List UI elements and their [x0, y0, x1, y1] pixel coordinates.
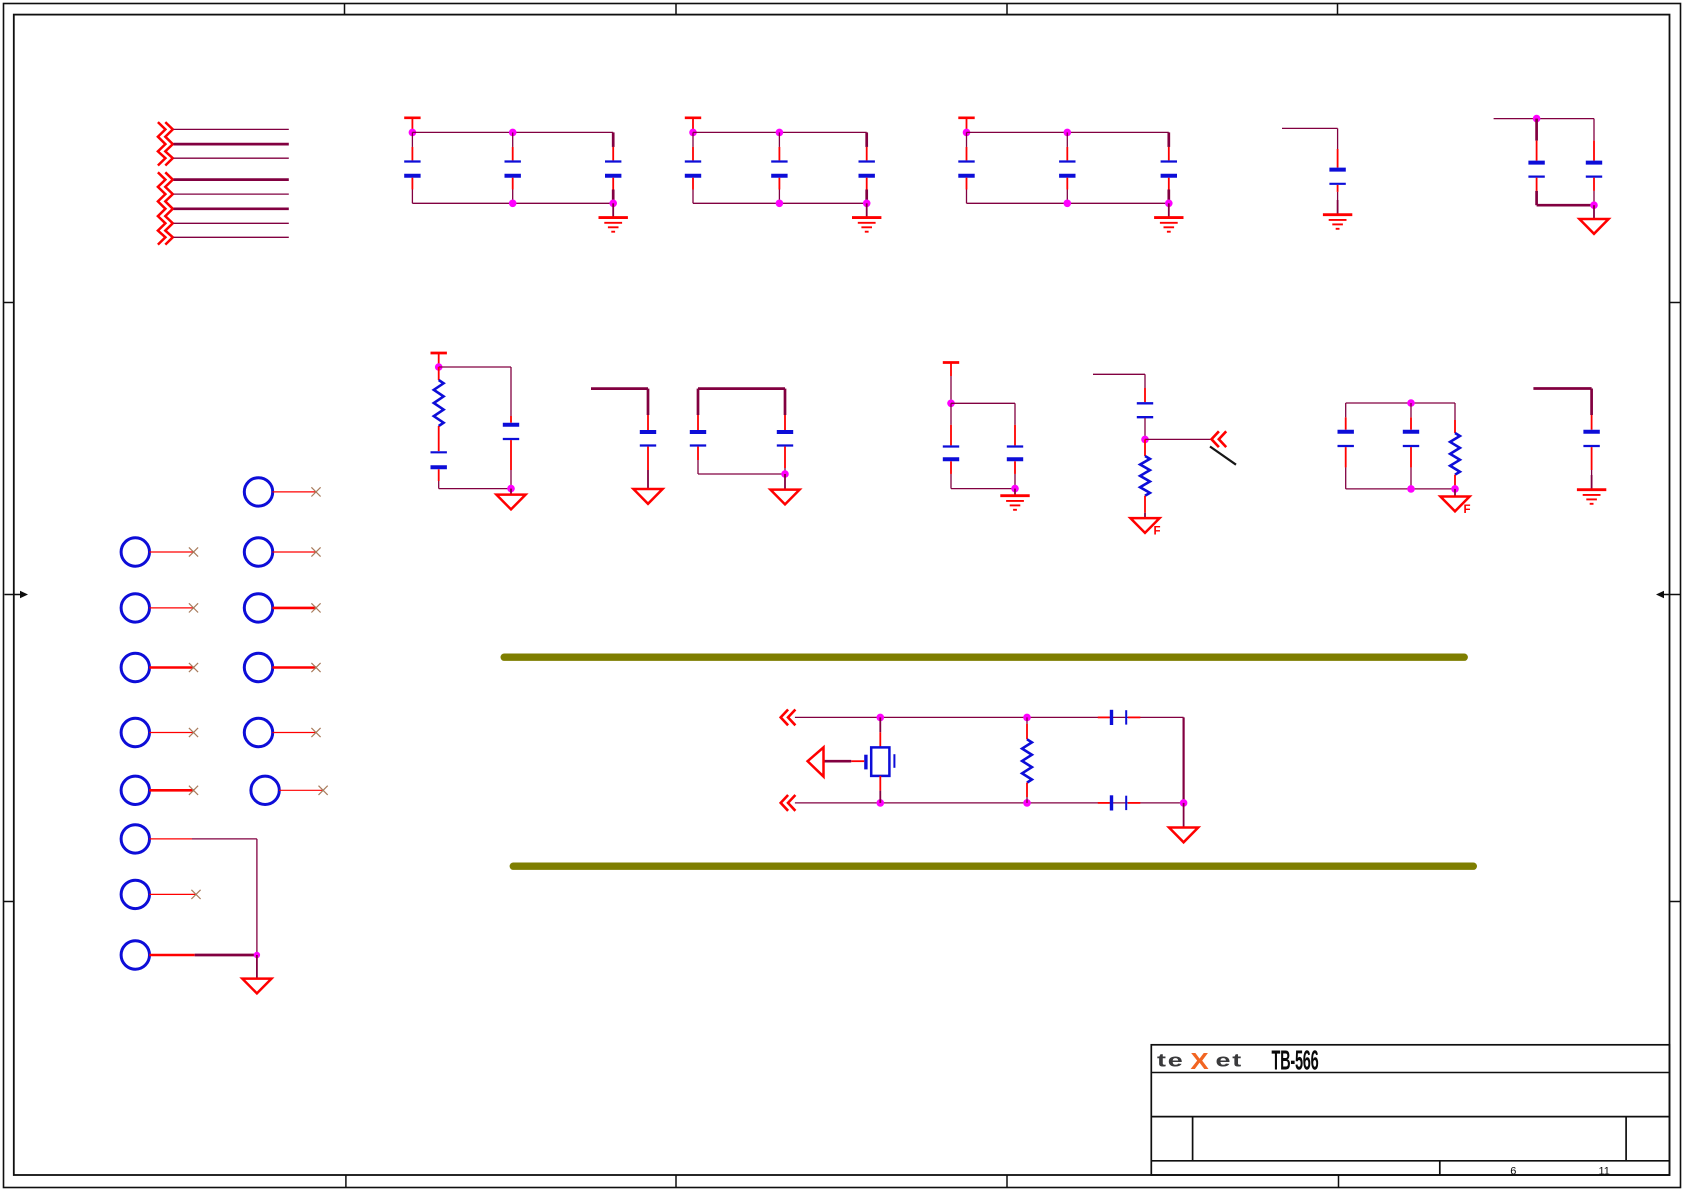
- node XT right bottom: [1180, 799, 1188, 807]
- svg-text:TB-566: TB-566: [1272, 1045, 1319, 1076]
- no-connect x P-L5: [189, 786, 198, 795]
- wire XT top: [795, 716, 1184, 718]
- ground cap H: [1323, 200, 1352, 229]
- node D top: [947, 400, 955, 408]
- wire XT right vertical: [1182, 717, 1184, 803]
- wire C top: [698, 387, 785, 390]
- ground crystal case (left triangle): [808, 747, 824, 776]
- node pins junction: [254, 952, 260, 958]
- no-connect x P-L2: [189, 603, 198, 612]
- wire cap H top: [1282, 127, 1338, 129]
- wire W7: [174, 222, 289, 224]
- pin P-R3: [244, 594, 316, 622]
- wire W1: [174, 128, 289, 130]
- capacitor C-C2: [777, 389, 793, 474]
- ground bank 2: [852, 203, 881, 231]
- capacitor C3a: [958, 132, 974, 203]
- pin P-L8: [121, 941, 257, 969]
- svg-text:et: et: [1216, 1049, 1243, 1070]
- node bank 1 bottom-middle: [509, 200, 517, 208]
- ground pair I: [1579, 205, 1608, 234]
- wire A bottom: [439, 488, 511, 490]
- capacitor C2b: [771, 132, 787, 203]
- capacitor C-A2: [503, 367, 519, 489]
- ground E: [1130, 513, 1159, 533]
- pin P-L7: [121, 880, 196, 908]
- wire E top: [1093, 374, 1145, 388]
- power pin bank 2: [685, 118, 701, 133]
- border zone tick left 2: [4, 901, 14, 903]
- wire D stub: [950, 376, 952, 403]
- off-page chevron XT top: [781, 710, 796, 726]
- border zone tick top 4: [1337, 4, 1339, 15]
- capacitor C-D1: [943, 403, 959, 488]
- border zone tick right 2: [1670, 901, 1682, 903]
- wire B: [591, 389, 648, 415]
- no-connect x P-R2: [311, 547, 320, 556]
- power pin bank 1: [404, 118, 420, 133]
- capacitor C-B: [640, 415, 656, 470]
- off-page chevron E: [1212, 431, 1227, 447]
- ground A: [496, 489, 525, 510]
- no-connect x P-R5: [311, 728, 320, 737]
- node bank 3 bottom-right: [1165, 200, 1173, 208]
- bus bar top: [504, 654, 1464, 661]
- wire W6: [174, 207, 289, 210]
- wire P-L6 vertical: [256, 839, 258, 955]
- border zone tick top 1: [344, 4, 346, 15]
- node A top: [435, 363, 443, 371]
- wire XT bottom: [795, 802, 1184, 804]
- pin P-R6: [251, 776, 323, 804]
- wire bank 2 top: [693, 131, 867, 133]
- resistor R-F: [1450, 403, 1460, 489]
- node bank 1 top-left: [409, 129, 417, 137]
- node D bottom: [1011, 485, 1019, 493]
- pin P-R1: [244, 478, 316, 506]
- node bank 1 top-middle: [509, 129, 517, 137]
- node F bottom-middle: [1407, 485, 1415, 493]
- wire bank 3 bottom: [967, 202, 1169, 204]
- pin P-L2: [121, 594, 193, 622]
- node bank 2 bottom-middle: [776, 200, 784, 208]
- node bank 3 top-middle: [1064, 129, 1072, 137]
- node pair I bottom: [1590, 201, 1598, 209]
- wire bank 3 top: [967, 131, 1169, 133]
- pin P-L5: [121, 776, 193, 804]
- pin P-R5: [244, 718, 316, 746]
- pin P-L1: [121, 538, 193, 566]
- svg-text:X: X: [1190, 1049, 1208, 1075]
- svg-text:11: 11: [1598, 1166, 1609, 1178]
- pin P-L4: [121, 718, 193, 746]
- capacitor C-D2: [1007, 403, 1023, 488]
- border zone tick right 1: [1670, 302, 1682, 304]
- power pin D: [943, 363, 959, 377]
- capacitor C-H: [1329, 128, 1345, 200]
- wire W8: [174, 236, 289, 238]
- node XT bottom resistor: [1023, 799, 1031, 807]
- capacitor C2c: [859, 132, 875, 203]
- wire bank 1 top: [412, 131, 613, 133]
- resistor R-XT: [1022, 717, 1032, 803]
- no-connect x P-L7: [191, 890, 200, 899]
- capacitor C1b: [505, 132, 521, 203]
- node XT top crystal: [877, 714, 885, 722]
- node F top: [1407, 399, 1415, 407]
- resistor R-E: [1140, 439, 1150, 512]
- capacitor C-Ib: [1586, 119, 1602, 206]
- wire D bottom: [951, 488, 1015, 490]
- wire F top: [1346, 402, 1455, 404]
- wire A top: [439, 366, 511, 368]
- node F bottom-right: [1451, 485, 1459, 493]
- ground C: [770, 474, 799, 504]
- capacitor C1a: [404, 132, 420, 203]
- pin P-R2: [244, 538, 316, 566]
- title block frame: [1151, 1045, 1669, 1175]
- wire F bottom: [1346, 488, 1455, 490]
- no-connect x P-L3: [189, 663, 198, 672]
- svg-text:F: F: [1464, 504, 1471, 516]
- capacitor C-A1: [431, 451, 447, 488]
- logo texet: [1157, 1049, 1243, 1075]
- node E: [1141, 436, 1149, 444]
- node bank 1 bottom-right: [609, 200, 617, 208]
- wire W2: [174, 143, 289, 146]
- capacitor C3b: [1059, 132, 1075, 203]
- off-page connector chevrons group 1: [158, 122, 173, 165]
- border zone tick bottom 3: [1006, 1175, 1008, 1188]
- wire bank 2 bottom: [693, 202, 867, 204]
- wire W5: [174, 193, 289, 195]
- svg-text:F: F: [1154, 526, 1161, 538]
- no-connect x P-R6: [319, 786, 328, 795]
- wire W4: [174, 178, 289, 181]
- ground B: [633, 470, 662, 504]
- crystal case lead: [823, 760, 865, 762]
- border zone tick bottom 4: [1338, 1175, 1340, 1188]
- no-connect x P-R4: [311, 663, 320, 672]
- border zone tick bottom 1: [345, 1175, 347, 1188]
- node bank 2 top-middle: [776, 129, 784, 137]
- capacitor C2a: [685, 132, 701, 203]
- capacitor C-C1: [690, 389, 706, 474]
- capacitor C3c: [1161, 132, 1177, 203]
- no-connect x P-R1: [311, 487, 320, 496]
- node bank 3 top-left: [963, 129, 971, 137]
- node C bottom: [781, 470, 789, 478]
- wire W3: [174, 157, 289, 159]
- border zone tick left 1: [4, 302, 14, 304]
- capacitor C-XT-bottom: [1098, 795, 1141, 810]
- stray black line: [1210, 447, 1236, 465]
- border zone tick top 2: [675, 4, 677, 15]
- node bank 2 top-left: [689, 129, 697, 137]
- node bank 2 bottom-right: [863, 200, 871, 208]
- wire G: [1533, 389, 1591, 416]
- ground XT: [1169, 803, 1198, 842]
- border centre arrow right: [1656, 591, 1680, 598]
- node pair I top: [1533, 115, 1541, 123]
- node XT bottom crystal: [877, 799, 885, 807]
- svg-text:te: te: [1157, 1049, 1184, 1070]
- bus bar bottom: [513, 863, 1473, 870]
- no-connect x P-R3: [311, 603, 320, 612]
- capacitor C-Ia: [1528, 119, 1544, 206]
- no-connect x P-L1: [189, 547, 198, 556]
- capacitor C-F2: [1403, 403, 1419, 489]
- wire pair I bottom: [1537, 204, 1594, 207]
- ground pins: [242, 955, 271, 993]
- pin P-L6: [121, 825, 257, 853]
- border zone tick top 3: [1006, 4, 1008, 15]
- svg-text:6: 6: [1510, 1166, 1516, 1178]
- border zone tick bottom 2: [675, 1175, 677, 1188]
- pin P-R4: [244, 653, 316, 681]
- pin P-L3: [121, 653, 193, 681]
- ground F: [1440, 489, 1469, 511]
- capacitor C-F1: [1338, 403, 1354, 489]
- node bank 3 bottom-middle: [1064, 200, 1072, 208]
- ground D: [1000, 489, 1029, 510]
- capacitor C-XT-top: [1098, 710, 1141, 725]
- wire bank 1 bottom: [412, 202, 613, 204]
- no-connect x P-L4: [189, 728, 198, 737]
- ground bank 3: [1154, 203, 1183, 231]
- crystal Y1: [866, 717, 895, 803]
- power pin A: [431, 353, 447, 367]
- ground G: [1577, 475, 1606, 504]
- capacitor C1c: [605, 132, 621, 203]
- wire E right: [1145, 438, 1211, 440]
- wire D top: [951, 402, 1015, 404]
- off-page chevron XT bottom: [781, 795, 796, 811]
- capacitor C-G: [1583, 415, 1599, 475]
- ground bank 1: [599, 203, 628, 231]
- power pin bank 3: [958, 118, 974, 133]
- wire pair I top: [1494, 118, 1594, 120]
- node A bottom: [507, 485, 515, 493]
- node XT top resistor: [1023, 714, 1031, 722]
- wire C bottom: [698, 473, 785, 475]
- resistor R-A: [434, 367, 444, 451]
- off-page connector chevrons group 2: [158, 172, 173, 244]
- capacitor C-E: [1137, 388, 1153, 439]
- border centre arrow left: [5, 591, 29, 598]
